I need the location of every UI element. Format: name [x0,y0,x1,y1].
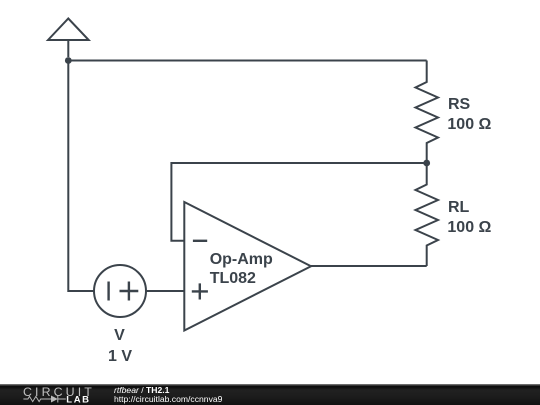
wire source to op-amp non-inverting input [146,290,184,292]
svg-text:LAB: LAB [66,395,90,405]
footer bar [0,384,540,405]
footer text [114,386,222,404]
wire left vertical to voltage source [68,61,94,292]
svg-text:TL082: TL082 [210,270,256,287]
resistor-diode squiggle [23,396,65,403]
op-amp inverting input minus mark [193,240,207,242]
power flag symbol (triangle) with stem [48,19,89,58]
op-amp non-inverting input plus mark [192,283,208,299]
svg-text:RL: RL [448,199,470,216]
op-amp TL082 triangle body [184,202,311,331]
svg-text:RS: RS [448,96,471,113]
svg-text:1 V: 1 V [108,348,132,365]
svg-text:V: V [114,327,125,344]
wire op-amp output to RL bottom [311,265,427,267]
voltage source V minus terminal mark [107,282,109,301]
CircuitLab logo [0,384,110,405]
resistor RL [416,163,439,266]
junction node top-left [65,57,72,64]
svg-text:100 Ω: 100 Ω [447,116,491,133]
voltage source V plus terminal mark [120,282,139,301]
junction node between RS and RL [423,160,430,167]
svg-text:Op-Amp: Op-Amp [210,251,273,268]
svg-text:100 Ω: 100 Ω [447,219,491,236]
wire top horizontal to RS [68,60,426,62]
wire feedback to op-amp inverting input [171,163,426,241]
voltage source V body [94,265,146,317]
resistor RS [416,61,439,164]
